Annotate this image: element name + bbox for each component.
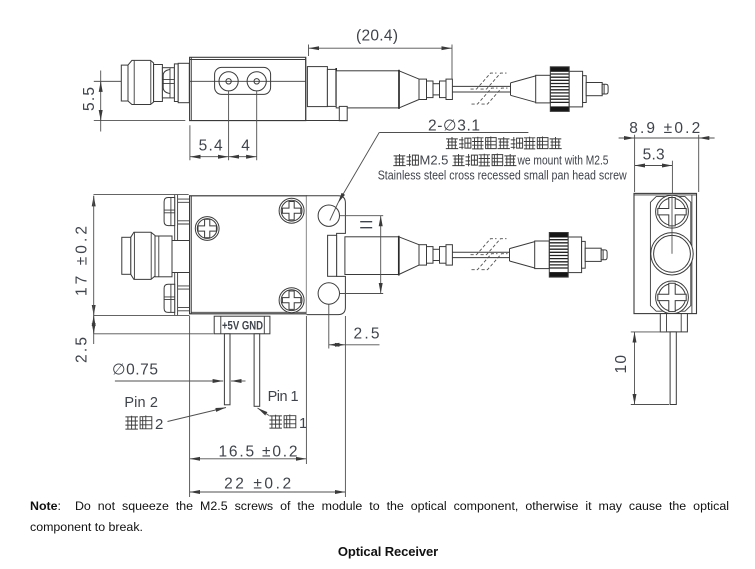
fiber boot taper (front view) (510, 242, 535, 268)
centerline through holes (top view) (190, 80, 306, 82)
crimp ferrule rings (top view) (419, 79, 427, 99)
svg-text:we mount with M2.5: we mount with M2.5 (517, 153, 609, 168)
svg-text:10: 10 (613, 355, 630, 374)
hole spacing extension lines (340, 216, 384, 294)
svg-text:16.5 ±0.2: 16.5 ±0.2 (219, 444, 298, 461)
dim 2.5 right dimension line (329, 344, 346, 346)
svg-text:2: 2 (155, 416, 163, 433)
FC receptacle collar B (top view) (178, 63, 189, 102)
connector step (top view) (583, 76, 587, 103)
dim (20.4) dimension line (309, 47, 453, 49)
body bottom edge (top view) (190, 120, 348, 122)
dim 8.9 extension lines (635, 135, 699, 192)
svg-text:2.5: 2.5 (354, 326, 380, 343)
dim 5.4/4 extension lines (190, 91, 257, 160)
svg-text:5.4: 5.4 (199, 138, 223, 155)
knurled FC coupling nut (front view) (549, 233, 568, 238)
knurled FC coupling nut (top view) (550, 67, 569, 72)
hole 2 (top view) (247, 72, 266, 91)
cable break marks (top view) (471, 73, 508, 104)
connector step (front view) (582, 241, 586, 268)
flange hole lower (2-Phi3.1) (318, 283, 339, 304)
fiber cable (top view) (452, 86, 510, 92)
dim 5.4 dimension line (190, 156, 229, 158)
module body (top view) (190, 57, 306, 120)
lower side screw head (front view) (164, 284, 175, 312)
fiber exit boss in flange notch (328, 235, 337, 276)
dim 5.3 dimension line (635, 165, 673, 167)
annotation leader with arrow into hole (338, 133, 379, 203)
FC receptacle end cap (front view) (122, 237, 131, 274)
dim 17 extension lines (94, 195, 214, 334)
screw boss with two holes (top view) (215, 67, 271, 94)
crimp ferrule rings (front view) (419, 245, 427, 265)
annotation CJK line 1 (446, 137, 458, 149)
strain relief boot cylinder (top view) (336, 71, 399, 108)
boot collar (front view) (535, 241, 550, 269)
hole 1 (top view) (219, 72, 238, 91)
left mounting strip (175, 195, 178, 315)
dim 17 dimension line (93, 196, 95, 207)
annotation underline (379, 132, 528, 134)
upper side screw head (front view) (164, 198, 175, 226)
dim 2.5 dimension line (left) (93, 315, 95, 333)
pin 1 (lead) (254, 334, 260, 407)
dim 16.5/22 extension lines (190, 316, 307, 497)
svg-text:∅0.75: ∅0.75 (112, 362, 158, 379)
ferrule sleeve (front view) (585, 248, 601, 261)
side view fiber port circle (651, 233, 693, 275)
side view top M2.5 screw (656, 195, 689, 228)
svg-text:+5V GND: +5V GND (222, 319, 263, 333)
pin base plate (214, 316, 270, 334)
dim 16.5 dimension line (190, 458, 307, 460)
cable break marks (front view) (471, 239, 508, 270)
flange plate seen from top (339, 106, 347, 120)
svg-text:4: 4 (241, 138, 250, 155)
fiber cable (front view) (452, 252, 509, 257)
svg-text:Pin 2: Pin 2 (124, 395, 157, 411)
side view fiber below stem (670, 332, 676, 405)
side view inner panel (650, 197, 690, 312)
dim 10 extension lines (631, 332, 669, 405)
ferrule sleeve (top view) (586, 83, 602, 96)
side view body (634, 193, 697, 313)
rear collar 2 (top view) (327, 69, 336, 106)
dim 5.5 extension line (body bottom) (94, 120, 186, 122)
dim 5.3 extension line (axis) (671, 161, 673, 254)
dim (20.4) extension lines (309, 45, 453, 79)
boot taper (top view) (399, 71, 419, 108)
boot collar (top view) (536, 75, 551, 103)
label pin2 (CJK) (125, 416, 137, 429)
svg-text:Pin 1: Pin 1 (268, 389, 299, 405)
svg-text:2.5: 2.5 (74, 337, 91, 363)
dim 2.5 right extension lines (329, 305, 346, 498)
connector body (front view) (568, 237, 581, 273)
hole spacing dimension line (380, 216, 382, 294)
FC receptacle bayonet D-section (top view) (162, 68, 174, 98)
side view bottom M2.5 screw (656, 281, 689, 314)
FC receptacle mid collar (top view) (154, 65, 163, 102)
FC receptacle boss (front view) (172, 241, 190, 273)
dim 5.5 dimension line (100, 71, 102, 132)
dim 5.5 extension line (optical axis) (94, 80, 190, 82)
flange hole upper (2-Phi3.1) (318, 205, 339, 226)
FC receptacle collar (front view) (155, 236, 172, 277)
top right M2.5 screw (front view) (279, 198, 304, 223)
pin 1 leader (258, 408, 270, 416)
dim Phi0.75 leader lines (115, 380, 223, 382)
svg-text:M2.5: M2.5 (420, 153, 449, 168)
fiber boot taper (top view) (511, 76, 536, 102)
dim 8.9 dimension line (619, 137, 635, 139)
annotation CJK line 2 (393, 154, 405, 166)
svg-text:(20.4): (20.4) (356, 28, 398, 45)
connector body (top view) (569, 71, 582, 107)
bottom right M2.5 screw (front view) (279, 288, 304, 313)
axis line into circle center (671, 196, 673, 254)
module body (front view) (190, 196, 307, 314)
svg-text:5.3: 5.3 (643, 147, 665, 164)
FC receptacle knurled nut (top view) (128, 60, 154, 104)
boot taper (front view) (399, 237, 419, 275)
ferrule tip (top view) (602, 84, 608, 94)
side view boot stem (660, 314, 687, 332)
right mounting flange (front view) (307, 196, 346, 315)
pin 2 (lead) (224, 334, 230, 405)
upper screw boss lines (178, 199, 190, 224)
lower screw boss lines (178, 286, 190, 311)
rear collar 1 (top view) (307, 67, 327, 107)
FC receptacle knurled nut (front view) (131, 232, 155, 279)
dim 4 dimension line (229, 156, 257, 158)
equality symbol (360, 222, 372, 228)
pin 2 leader (168, 408, 227, 422)
svg-text:Stainless steel cross recessed: Stainless steel cross recessed small pan… (378, 169, 628, 183)
FC receptacle end cap (top view) (121, 65, 128, 101)
strain relief boot (front view) (345, 237, 399, 275)
ferrule tip (front view) (601, 250, 607, 260)
left M2.5 screw (front view) (195, 217, 219, 241)
FC receptacle collar A (top view) (174, 64, 178, 102)
dim 10 dimension line (634, 332, 636, 405)
dim 22 dimension line (190, 491, 346, 493)
svg-text:2-∅3.1: 2-∅3.1 (428, 118, 480, 135)
svg-text:5.5: 5.5 (81, 87, 98, 111)
label pin1 (CJK) (269, 415, 282, 428)
